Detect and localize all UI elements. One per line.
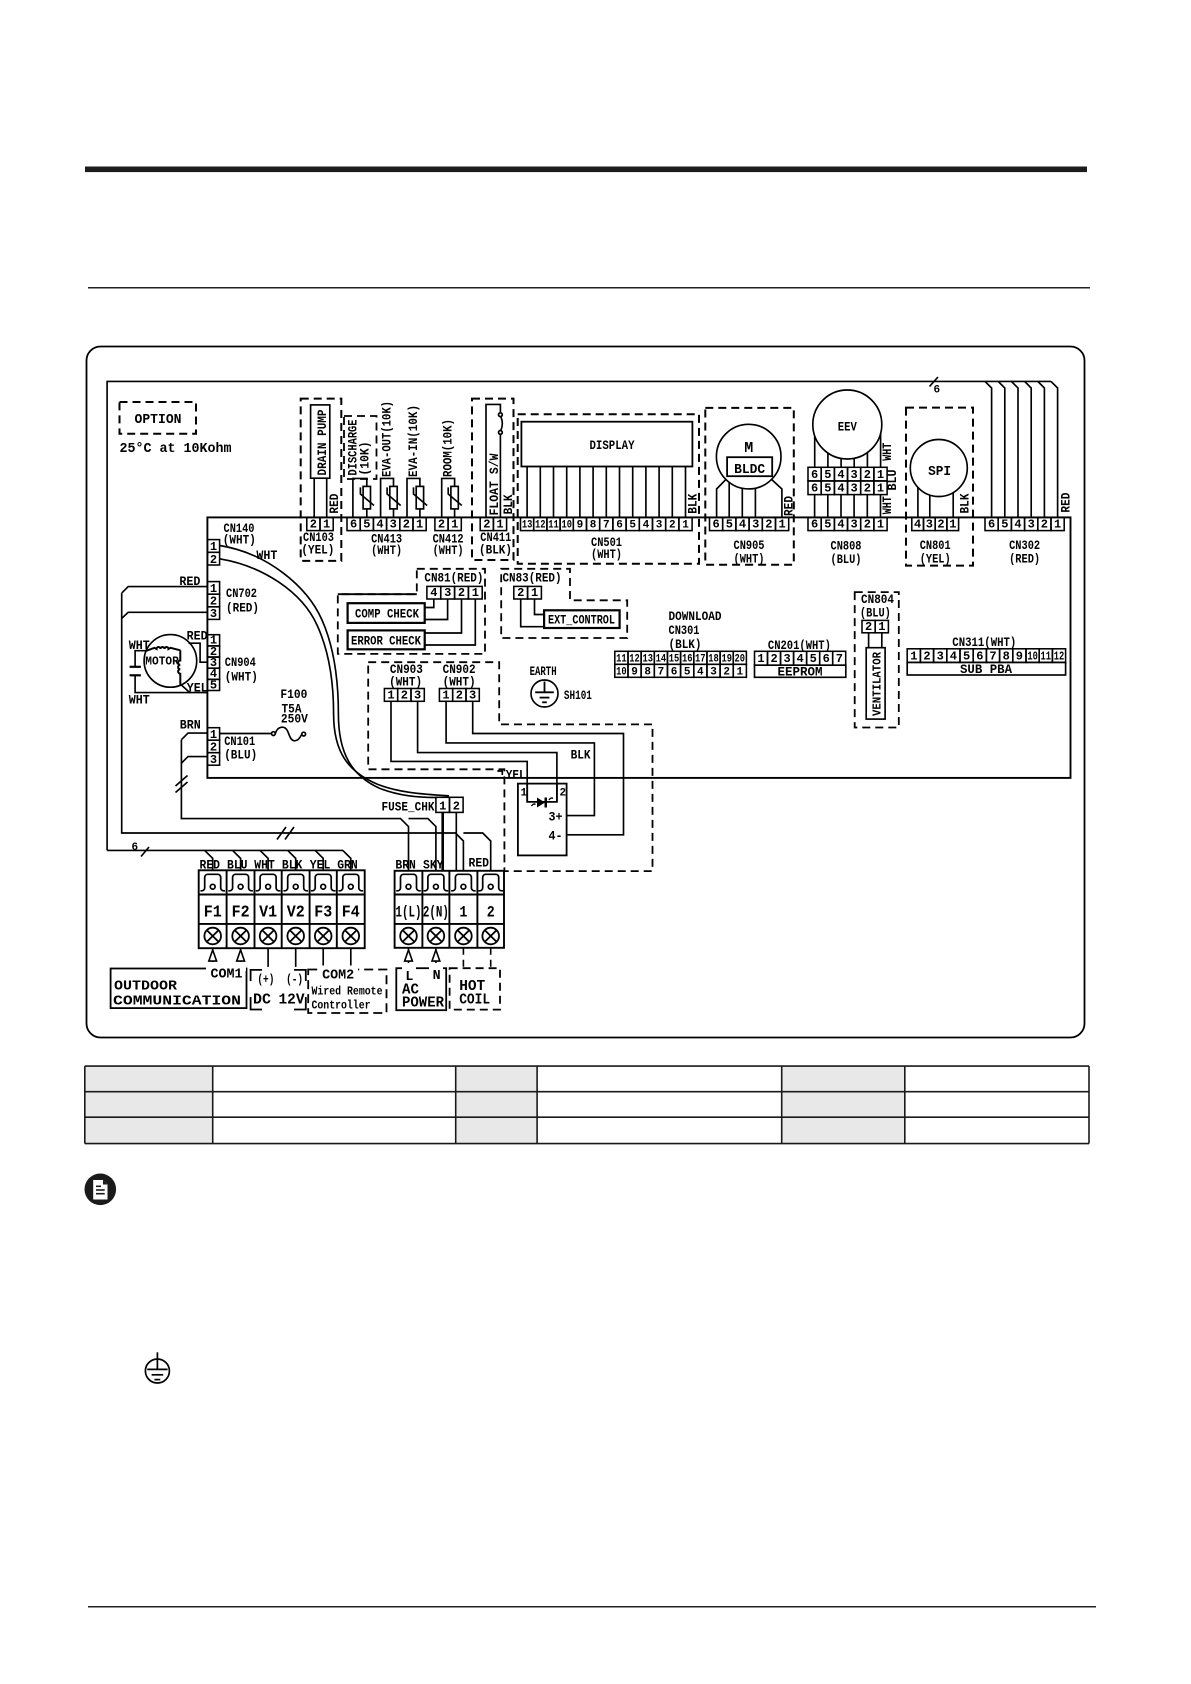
wire CN902 pin1 to sensor pin3+ [446, 701, 594, 815]
svg-text:COM2: COM2 [322, 968, 354, 984]
svg-text:5: 5 [824, 468, 831, 482]
HOT COIL dashed box [450, 968, 500, 1009]
svg-text:EVA-IN(10K): EVA-IN(10K) [406, 405, 421, 477]
svg-text:RED: RED [327, 493, 342, 513]
connector CN302 (RED) pin cells [985, 517, 1064, 530]
svg-text:1: 1 [451, 518, 458, 532]
svg-text:RED: RED [187, 629, 208, 644]
svg-text:BRN: BRN [180, 718, 201, 733]
svg-text:6: 6 [350, 518, 357, 532]
svg-text:COMMUNICATION: COMMUNICATION [113, 994, 241, 1010]
svg-text:YEL: YEL [310, 858, 331, 873]
svg-text:1: 1 [472, 586, 479, 600]
capacitor plates [130, 667, 141, 676]
svg-text:4: 4 [430, 586, 437, 600]
bundle vertical + bus to terminals 1,2 [122, 593, 491, 871]
svg-text:4: 4 [739, 518, 746, 532]
COM2 Wired Remote Controller bracket box [308, 970, 386, 1014]
svg-text:15: 15 [669, 653, 680, 665]
svg-text:OPTION: OPTION [135, 412, 182, 428]
CN83 dashed outline [501, 569, 627, 638]
EEV leads [815, 434, 881, 468]
svg-text:WHT: WHT [129, 638, 150, 653]
fan motor circle [144, 635, 197, 688]
svg-text:DC: DC [253, 992, 271, 1009]
svg-text:CN81(RED): CN81(RED) [424, 571, 483, 586]
svg-text:7: 7 [603, 520, 610, 532]
BLDC motor circle [716, 424, 781, 489]
svg-text:2: 2 [453, 799, 460, 813]
svg-text:(-): (-) [286, 972, 303, 987]
wire CN702 pin3 [122, 612, 208, 618]
svg-text:2: 2 [456, 688, 463, 702]
svg-text:1: 1 [387, 688, 394, 702]
top thick rule [85, 167, 1087, 173]
FUSE_CHK wire 2 [455, 812, 457, 870]
svg-text:(WHT): (WHT) [433, 543, 464, 558]
svg-text:WHT: WHT [880, 496, 895, 514]
wire pair WHT from CN140 to FUSE_CHK (inner) [220, 559, 449, 796]
svg-text:ROOM(10K): ROOM(10K) [441, 419, 456, 477]
svg-text:SPI: SPI [928, 464, 951, 480]
connector CN904 (WHT) pin cells [207, 635, 219, 691]
terminal screws [204, 928, 499, 945]
svg-text:3: 3 [850, 482, 857, 496]
svg-text:8: 8 [644, 666, 651, 678]
svg-text:4: 4 [697, 666, 704, 678]
svg-text:3: 3 [390, 518, 397, 532]
EEPROM box [755, 665, 846, 677]
svg-text:5: 5 [684, 666, 691, 678]
svg-text:BLK: BLK [686, 494, 701, 514]
PCB board outline [207, 517, 1070, 778]
svg-text:1(L): 1(L) [396, 904, 422, 922]
svg-text:COM1: COM1 [211, 967, 243, 983]
svg-text:4: 4 [914, 518, 921, 532]
svg-text:(YEL): (YEL) [301, 543, 334, 558]
svg-text:BLK: BLK [957, 493, 972, 513]
arrow COM1 F1 [209, 948, 217, 968]
wire fan to CN302 pins [985, 381, 1058, 517]
svg-text:2: 2 [864, 518, 871, 532]
connector EEV block row2 pin cells [808, 481, 887, 495]
svg-text:9: 9 [577, 520, 584, 532]
svg-text:4: 4 [376, 518, 383, 532]
svg-text:2: 2 [864, 482, 871, 496]
terminal drop wires F1-F4 [205, 850, 351, 870]
svg-text:2: 2 [865, 620, 872, 634]
note icon [85, 1174, 117, 1206]
svg-text:3: 3 [937, 649, 944, 663]
svg-text:F3: F3 [314, 904, 332, 923]
svg-text:1: 1 [877, 482, 884, 496]
svg-text:9: 9 [1016, 649, 1023, 663]
motor winding top coil [146, 647, 180, 651]
CN801 dashed box [906, 408, 973, 566]
svg-text:18: 18 [708, 653, 719, 665]
wire CN903 pin3 to sensor pin2 [418, 701, 557, 802]
svg-text:5: 5 [363, 518, 370, 532]
SUB PBA box [907, 662, 1065, 675]
svg-text:(WHT): (WHT) [734, 552, 765, 567]
svg-text:(BLU): (BLU) [224, 748, 257, 763]
svg-text:1: 1 [949, 518, 956, 532]
svg-text:F100: F100 [280, 687, 307, 702]
CN83 wires [521, 599, 544, 627]
svg-text:1: 1 [682, 520, 689, 532]
svg-text:3: 3 [444, 586, 451, 600]
svg-text:2: 2 [923, 649, 930, 663]
dashed wires to HOT COIL [463, 948, 490, 968]
svg-text:1: 1 [778, 518, 785, 532]
svg-text:8: 8 [590, 520, 597, 532]
svg-text:9: 9 [631, 666, 638, 678]
svg-text:CN311(WHT): CN311(WHT) [952, 635, 1016, 650]
svg-text:12V: 12V [279, 992, 305, 1009]
svg-text:5: 5 [726, 518, 733, 532]
motor capacitor branch WHT [135, 651, 190, 693]
connector CN501 (WHT) pin cells [521, 517, 693, 530]
svg-text:3: 3 [850, 518, 857, 532]
svg-text:(WHT): (WHT) [223, 533, 256, 548]
svg-text:5: 5 [210, 678, 217, 692]
wire CN101 pin1 [181, 733, 207, 740]
svg-text:2: 2 [765, 518, 772, 532]
svg-text:19: 19 [721, 653, 732, 665]
EEV circle [813, 390, 882, 459]
svg-text:1: 1 [439, 799, 446, 813]
svg-text:F1: F1 [204, 904, 222, 923]
svg-text:6: 6 [988, 518, 995, 532]
svg-text:RED: RED [1059, 492, 1074, 512]
svg-text:EEV: EEV [838, 420, 857, 435]
svg-text:1: 1 [442, 688, 449, 702]
connector CN411 (BLK) pin cells [480, 517, 506, 530]
header thin rule [88, 287, 1090, 289]
AC POWER box [396, 968, 446, 1010]
svg-text:RED: RED [200, 858, 221, 873]
svg-text:CN301: CN301 [669, 623, 700, 638]
svg-text:(RED): (RED) [226, 601, 259, 616]
connector CN311 pin cells [907, 649, 1065, 663]
svg-text:VENTILATOR: VENTILATOR [871, 651, 885, 716]
legend table [85, 1066, 1089, 1144]
svg-text:2(N): 2(N) [423, 904, 449, 922]
svg-text:(RED): (RED) [1009, 552, 1040, 567]
wire CN702 pin1 RED [122, 587, 208, 594]
connector CN201 pin cells [755, 651, 846, 665]
svg-text:RED: RED [469, 856, 490, 871]
double-slash mark on bus [277, 827, 294, 840]
ERROR CHECK box [348, 630, 425, 649]
display wires [527, 467, 685, 518]
svg-text:3+: 3+ [549, 810, 563, 825]
svg-text:SKY: SKY [423, 858, 444, 873]
wire CN101 pin3 [181, 757, 207, 764]
svg-text:11: 11 [616, 653, 627, 665]
svg-text:DISPLAY: DISPLAY [590, 438, 635, 453]
svg-text:BLK: BLK [501, 494, 516, 514]
svg-text:20: 20 [735, 653, 746, 665]
arrow COM1 F2 [237, 948, 245, 968]
svg-text:1: 1 [521, 788, 528, 800]
svg-text:COMP CHECK: COMP CHECK [355, 607, 419, 622]
diagram rounded border [87, 347, 1085, 1038]
CN81 dashed outline [338, 569, 485, 654]
connector EEV block row1 pin cells [808, 467, 887, 481]
svg-text:4: 4 [837, 468, 844, 482]
svg-text:POWER: POWER [402, 995, 444, 1012]
svg-text:2: 2 [560, 788, 567, 800]
wire bundle 6-wires left/top route [107, 381, 1051, 850]
FUSE_CHK wire 1 (bold) [441, 812, 444, 870]
svg-text:3: 3 [1028, 518, 1035, 532]
svg-text:WHT: WHT [254, 858, 275, 873]
svg-text:GRN: GRN [337, 858, 358, 873]
svg-text:WHT: WHT [256, 548, 277, 563]
svg-text:4: 4 [837, 482, 844, 496]
svg-text:3: 3 [710, 666, 717, 678]
svg-text:MOTOR: MOTOR [145, 654, 179, 668]
DC 12V brackets [251, 970, 306, 1010]
svg-text:CN904: CN904 [225, 655, 256, 670]
svg-text:EVA-OUT(10K): EVA-OUT(10K) [380, 401, 395, 477]
svg-text:Controller: Controller [312, 999, 371, 1013]
svg-text:2: 2 [438, 518, 445, 532]
ROOM(10K) thermistor [442, 478, 462, 517]
svg-text:6: 6 [616, 520, 623, 532]
svg-text:(YEL): (YEL) [920, 552, 951, 567]
connector CN103 (YEL) pin cells [307, 517, 333, 530]
svg-text:SH101: SH101 [564, 688, 592, 703]
svg-text:F2: F2 [232, 904, 250, 923]
connector CN301 row1 pin cells [615, 651, 747, 664]
svg-text:2: 2 [458, 586, 465, 600]
svg-text:7: 7 [658, 666, 665, 678]
svg-text:1: 1 [877, 518, 884, 532]
connector CN808 (BLU) pin cells [808, 517, 887, 530]
svg-text:(WHT): (WHT) [371, 543, 402, 558]
svg-text:1: 1 [877, 468, 884, 482]
arrow AC N [432, 948, 440, 968]
COMP CHECK box [348, 603, 425, 623]
connector CN83 pin cells [514, 586, 542, 599]
svg-text:N: N [433, 968, 441, 984]
svg-text:3: 3 [210, 607, 217, 621]
svg-text:10: 10 [1027, 649, 1038, 663]
DRAIN PUMP dashed box [301, 399, 342, 561]
wire pair WHT from CN140 to FUSE_CHK (outer) [220, 546, 437, 798]
svg-text:2: 2 [487, 904, 495, 922]
svg-text:3: 3 [414, 688, 421, 702]
svg-text:FLOAT S/W: FLOAT S/W [487, 453, 502, 515]
connector CN413 (WHT) pin cells [347, 517, 426, 530]
svg-text:6: 6 [811, 482, 818, 496]
remote sensor dashed outline [368, 662, 652, 871]
bundle count mark 6 (bottom) [141, 847, 149, 857]
EXT_CONTROL box [544, 610, 620, 628]
svg-text:12: 12 [629, 653, 640, 665]
svg-text:3: 3 [850, 468, 857, 482]
svg-text:RED: RED [782, 496, 797, 516]
svg-text:2: 2 [864, 468, 871, 482]
svg-text:13: 13 [522, 520, 533, 532]
earth symbol SH101 [531, 680, 558, 707]
svg-text:DOWNLOAD: DOWNLOAD [669, 609, 722, 624]
EEV block to CN808 wires [815, 495, 881, 518]
svg-text:6: 6 [671, 666, 678, 678]
CN501 dashed box [518, 414, 699, 564]
svg-text:WHT: WHT [880, 443, 895, 461]
svg-text:1: 1 [910, 649, 917, 663]
svg-text:Wired Remote: Wired Remote [312, 985, 383, 999]
svg-text:F4: F4 [342, 904, 360, 923]
svg-text:6: 6 [811, 468, 818, 482]
DISCHARGE(10K) thermistor [344, 416, 377, 479]
float switch body [486, 404, 502, 517]
EVA-OUT(10K) thermistor [381, 478, 401, 517]
SPI leads [918, 487, 953, 517]
svg-text:14: 14 [656, 653, 667, 665]
earth symbol (note) [145, 1352, 169, 1383]
svg-text:ERROR CHECK: ERROR CHECK [351, 634, 421, 649]
CN804 dashed box [855, 592, 899, 727]
terminal block AC/HOT [395, 871, 504, 948]
svg-text:EARTH: EARTH [530, 664, 557, 679]
svg-text:2: 2 [403, 518, 410, 532]
svg-text:10: 10 [616, 666, 627, 678]
svg-text:2: 2 [210, 553, 217, 567]
svg-text:6: 6 [811, 518, 818, 532]
svg-text:6: 6 [712, 518, 719, 532]
svg-text:250V: 250V [281, 712, 308, 727]
VENTILATOR box [866, 648, 885, 719]
svg-text:1: 1 [757, 652, 764, 666]
svg-text:(BLU): (BLU) [831, 552, 862, 567]
svg-text:5: 5 [824, 482, 831, 496]
wire RED motor to CN904 pin3 [189, 643, 208, 662]
svg-text:V1: V1 [259, 904, 277, 923]
OPTION dashed box [120, 402, 197, 434]
wires V1 V2 F3 F4 down [268, 948, 351, 967]
terminal block F1-F4 [199, 870, 365, 948]
svg-text:5: 5 [1001, 518, 1008, 532]
receiver diode symbol [537, 798, 545, 808]
svg-text:V2: V2 [287, 904, 305, 923]
double-slash mark on CN101 bundle [176, 776, 188, 793]
arrow AC L [405, 948, 413, 968]
svg-text:EXT_CONTROL: EXT_CONTROL [548, 613, 615, 628]
svg-text:COIL: COIL [459, 992, 490, 1009]
svg-text:RED: RED [179, 574, 200, 589]
bundle vertical + bus to terminals L,N [181, 740, 436, 871]
connector CN301 row2 pin cells [615, 664, 747, 677]
FLOAT S/W dashed box [472, 399, 514, 560]
OUTDOOR COMMUNICATION box [111, 969, 247, 1009]
svg-text:(10K): (10K) [358, 442, 373, 476]
svg-text:6: 6 [823, 652, 830, 666]
svg-text:3: 3 [210, 753, 217, 767]
CN81 wires [425, 599, 476, 645]
connector CN902 pin cells [439, 689, 479, 702]
svg-text:BLDC: BLDC [734, 462, 766, 478]
svg-text:10: 10 [561, 520, 572, 532]
svg-text:2: 2 [669, 520, 676, 532]
svg-text:4-: 4- [549, 829, 563, 844]
svg-text:YEL: YEL [187, 681, 208, 696]
svg-text:11: 11 [548, 520, 559, 532]
svg-text:2: 2 [401, 688, 408, 702]
label YEL (sensor) with tick [497, 771, 502, 775]
motor winding right coil [178, 650, 180, 684]
CN804 leads [869, 633, 882, 648]
bundle count mark 6 (top) [930, 377, 939, 387]
svg-text:EEPROM: EEPROM [778, 664, 823, 679]
svg-text:17: 17 [695, 653, 706, 665]
svg-text:(+): (+) [257, 972, 274, 987]
svg-text:4: 4 [1014, 518, 1021, 532]
IR receiver part body [518, 784, 567, 856]
svg-text:2: 2 [1041, 518, 1048, 532]
svg-text:3: 3 [656, 520, 663, 532]
svg-text:(WHT): (WHT) [389, 675, 422, 690]
svg-text:1: 1 [736, 666, 743, 678]
svg-text:3: 3 [752, 518, 759, 532]
svg-text:DRAIN PUMP: DRAIN PUMP [315, 409, 330, 475]
connector CN412 (WHT) pin cells [435, 517, 461, 530]
SPI circle [910, 440, 967, 497]
svg-text:3: 3 [469, 688, 476, 702]
svg-text:(BLK): (BLK) [669, 637, 702, 652]
svg-text:6: 6 [934, 385, 941, 397]
wire CN903 pin1 to sensor pin1 (YEL) [391, 701, 527, 802]
svg-text:BLU: BLU [227, 858, 248, 873]
svg-text:12: 12 [1054, 649, 1065, 663]
svg-text:1: 1 [416, 518, 423, 532]
svg-text:1: 1 [1054, 518, 1061, 532]
svg-text:(BLK): (BLK) [479, 543, 512, 558]
bottom 6-wire bus [107, 849, 343, 851]
BLDC leads [717, 479, 782, 517]
svg-text:6: 6 [132, 842, 139, 854]
svg-text:1: 1 [531, 586, 538, 600]
terminal clamps [200, 874, 503, 891]
connector FUSE_CHK pin cells [436, 797, 463, 812]
svg-text:1: 1 [878, 620, 885, 634]
svg-text:M: M [744, 440, 753, 457]
svg-text:BLK: BLK [282, 858, 303, 873]
svg-text:25°C at 10Kohm: 25°C at 10Kohm [120, 441, 232, 457]
connector CN801 (YEL) pin cells [912, 517, 959, 530]
DRAIN PUMP label box [311, 405, 330, 478]
svg-text:7: 7 [836, 652, 843, 666]
svg-text:OUTDOOR: OUTDOOR [114, 979, 178, 995]
svg-text:SUB PBA: SUB PBA [960, 662, 1012, 677]
svg-text:11: 11 [1041, 649, 1052, 663]
svg-text:CN702: CN702 [226, 586, 257, 601]
svg-text:CN83(RED): CN83(RED) [503, 571, 562, 586]
svg-text:4: 4 [643, 520, 650, 532]
fuse F100 wire [220, 733, 272, 735]
svg-text:(BLU): (BLU) [860, 606, 891, 621]
svg-text:(WHT): (WHT) [225, 670, 258, 685]
svg-text:12: 12 [535, 520, 546, 532]
connector CN804 pin cells [862, 620, 888, 632]
svg-text:2: 2 [723, 666, 730, 678]
svg-text:(WHT): (WHT) [443, 675, 476, 690]
svg-text:2: 2 [937, 518, 944, 532]
connector CN903 pin cells [384, 689, 424, 702]
